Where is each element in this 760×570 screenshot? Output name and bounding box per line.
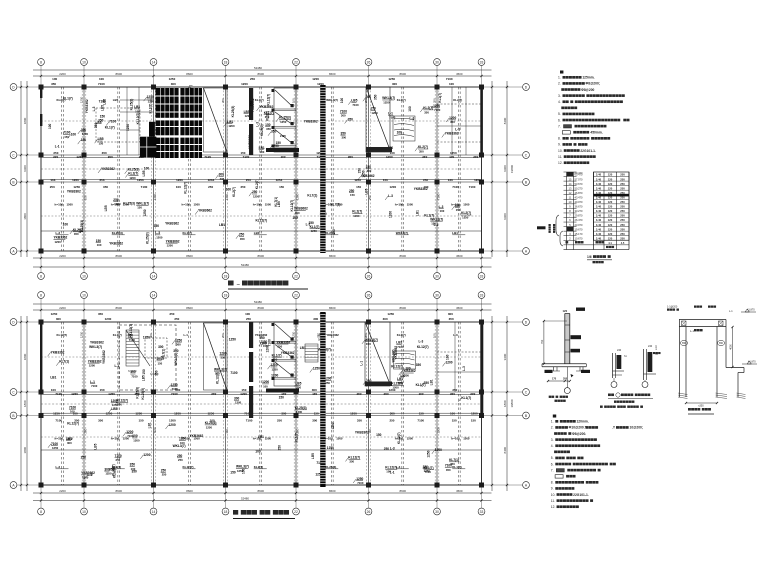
svg-text:8600: 8600 bbox=[258, 254, 265, 258]
plan2 mid-bay double dashed beam lines bbox=[61, 322, 63, 485]
plan1 mid-bay double dashed beam lines bbox=[61, 87, 63, 251]
svg-text:1250: 1250 bbox=[331, 422, 335, 429]
svg-text:41.870: 41.870 bbox=[747, 309, 755, 312]
plan2 left stairwell with flights bbox=[119, 325, 176, 390]
svg-text:YKB3362: YKB3362 bbox=[165, 221, 179, 225]
svg-text:YKB3362: YKB3362 bbox=[281, 351, 295, 355]
svg-text:7100: 7100 bbox=[153, 427, 157, 434]
svg-text:7100: 7100 bbox=[446, 77, 453, 81]
svg-text:100: 100 bbox=[97, 243, 102, 247]
plan1 columns bbox=[39, 85, 44, 90]
svg-text:120: 120 bbox=[608, 186, 613, 190]
svg-text:120: 120 bbox=[608, 173, 613, 177]
svg-text:4.5: 4.5 bbox=[621, 241, 625, 245]
svg-text:100: 100 bbox=[450, 412, 455, 416]
svg-text:52480: 52480 bbox=[254, 66, 262, 70]
svg-text:350: 350 bbox=[433, 98, 437, 103]
plan1 curved ramp detail bbox=[393, 116, 415, 141]
svg-text:LB5: LB5 bbox=[365, 188, 369, 194]
svg-text:19800: 19800 bbox=[510, 399, 514, 407]
svg-text:8600: 8600 bbox=[400, 254, 407, 258]
svg-text:22G101-1.: 22G101-1. bbox=[573, 493, 589, 497]
svg-text:350: 350 bbox=[424, 110, 429, 114]
svg-text:8600: 8600 bbox=[329, 489, 336, 493]
svg-text:300: 300 bbox=[341, 114, 346, 118]
svg-text:100: 100 bbox=[63, 222, 69, 226]
svg-text:250: 250 bbox=[81, 456, 87, 460]
svg-text:KL12(7): KL12(7) bbox=[397, 432, 401, 444]
svg-text:100: 100 bbox=[52, 77, 57, 81]
svg-text:1/6: 1/6 bbox=[587, 255, 592, 259]
svg-text:350: 350 bbox=[357, 419, 362, 423]
svg-text:4.: 4. bbox=[558, 100, 561, 104]
plan1 black mesh block (opening hatch) bbox=[156, 88, 203, 158]
svg-text:1500: 1500 bbox=[407, 203, 414, 207]
svg-text:120: 120 bbox=[608, 223, 613, 227]
svg-text:350: 350 bbox=[266, 127, 271, 131]
svg-text:1200: 1200 bbox=[114, 202, 121, 206]
svg-text:250: 250 bbox=[620, 218, 625, 222]
svg-text:100: 100 bbox=[255, 450, 261, 454]
svg-text:350: 350 bbox=[131, 470, 137, 474]
svg-text:350: 350 bbox=[240, 237, 245, 241]
svg-text:3.40: 3.40 bbox=[596, 236, 602, 240]
svg-text:22: 22 bbox=[294, 60, 298, 64]
floor level table bbox=[553, 171, 629, 263]
plan2 left dimension lines bbox=[20, 316, 22, 491]
svg-text:1.: 1. bbox=[551, 420, 554, 424]
svg-text:8600: 8600 bbox=[329, 72, 336, 76]
svg-text:3.: 3. bbox=[551, 438, 554, 442]
svg-text:WKL3(7): WKL3(7) bbox=[89, 345, 102, 349]
svg-text:46.870: 46.870 bbox=[575, 191, 583, 195]
svg-text:100: 100 bbox=[408, 106, 412, 112]
svg-text:1500: 1500 bbox=[407, 436, 414, 440]
svg-text:1250: 1250 bbox=[153, 193, 157, 200]
svg-text:L-3: L-3 bbox=[92, 106, 96, 111]
plan2 grid circles bottom bbox=[38, 508, 45, 515]
svg-text:26: 26 bbox=[367, 274, 371, 278]
svg-text:WKL3(7): WKL3(7) bbox=[173, 444, 186, 448]
svg-text:L-3: L-3 bbox=[418, 340, 423, 344]
svg-text:6.: 6. bbox=[558, 118, 561, 122]
detail 4: portal frame section bbox=[653, 306, 757, 415]
svg-text:1800: 1800 bbox=[23, 400, 27, 407]
svg-text:1-1@200: 1-1@200 bbox=[667, 306, 678, 309]
svg-text:3.40: 3.40 bbox=[596, 186, 602, 190]
svg-text:7100: 7100 bbox=[230, 371, 237, 375]
svg-text:350: 350 bbox=[51, 82, 56, 86]
svg-text:LB5: LB5 bbox=[93, 443, 97, 449]
svg-text:150: 150 bbox=[142, 369, 146, 375]
svg-text:120: 120 bbox=[563, 309, 568, 313]
svg-text:300: 300 bbox=[281, 412, 286, 416]
svg-text:h=100: h=100 bbox=[451, 436, 460, 440]
svg-text:14: 14 bbox=[152, 274, 156, 278]
svg-text:350: 350 bbox=[373, 94, 377, 100]
svg-text:120: 120 bbox=[608, 232, 613, 236]
svg-text:7100: 7100 bbox=[417, 419, 424, 423]
svg-text:L-3: L-3 bbox=[56, 231, 61, 235]
svg-text:LB5: LB5 bbox=[311, 453, 315, 459]
svg-text:3.40: 3.40 bbox=[596, 173, 602, 177]
svg-text:KL25(3): KL25(3) bbox=[112, 231, 123, 235]
svg-text:1200: 1200 bbox=[241, 82, 248, 86]
svg-text:KL2(7): KL2(7) bbox=[397, 98, 406, 102]
svg-text:1500: 1500 bbox=[265, 203, 272, 207]
svg-text:100: 100 bbox=[48, 123, 52, 129]
svg-text:100: 100 bbox=[51, 388, 56, 392]
svg-text:KL1(7): KL1(7) bbox=[63, 96, 73, 100]
svg-text:100: 100 bbox=[176, 185, 181, 189]
svg-text:1200: 1200 bbox=[105, 317, 112, 321]
svg-text:KL12(7): KL12(7) bbox=[184, 182, 188, 194]
plan2 left stair (3 flights) bbox=[274, 322, 296, 386]
svg-text:4050: 4050 bbox=[730, 344, 733, 350]
small vertical label left of table bbox=[549, 224, 551, 233]
svg-text:LB1: LB1 bbox=[430, 379, 434, 385]
svg-text:1200: 1200 bbox=[389, 211, 393, 218]
svg-text:250: 250 bbox=[620, 200, 625, 204]
svg-text:100: 100 bbox=[292, 216, 298, 220]
svg-text:1800: 1800 bbox=[23, 117, 27, 124]
svg-text:1250: 1250 bbox=[426, 450, 430, 457]
svg-text:3.40: 3.40 bbox=[596, 177, 602, 181]
svg-text:7100: 7100 bbox=[452, 185, 459, 189]
svg-text:300: 300 bbox=[176, 342, 181, 346]
svg-text:1250: 1250 bbox=[229, 337, 236, 341]
svg-text:120: 120 bbox=[608, 182, 613, 186]
svg-text:100: 100 bbox=[263, 384, 268, 388]
svg-text:1250: 1250 bbox=[51, 312, 58, 316]
svg-text:100: 100 bbox=[440, 209, 445, 213]
plan2 outer wall bbox=[41, 322, 482, 485]
plan1 grid circles bottom bbox=[38, 273, 45, 280]
svg-text:1250: 1250 bbox=[52, 446, 59, 450]
svg-text:8: 8 bbox=[40, 510, 42, 514]
svg-text:7100: 7100 bbox=[55, 419, 62, 423]
svg-text:100: 100 bbox=[448, 178, 453, 182]
plan1 interior column grid lines bbox=[83, 87, 85, 251]
svg-text:33: 33 bbox=[480, 510, 484, 514]
svg-text:350: 350 bbox=[271, 130, 277, 134]
plan1 title bbox=[228, 281, 234, 286]
svg-text:L-1: L-1 bbox=[690, 329, 694, 333]
svg-text:4500: 4500 bbox=[456, 72, 463, 76]
svg-text:300: 300 bbox=[158, 345, 164, 349]
svg-text:1200: 1200 bbox=[133, 438, 140, 442]
svg-text:350: 350 bbox=[419, 149, 424, 153]
svg-text:250: 250 bbox=[250, 77, 255, 81]
plan2 expansion joint hatch strip bbox=[320, 312, 325, 487]
top-right notes list bbox=[558, 71, 629, 166]
svg-text:YKB3662: YKB3662 bbox=[198, 209, 212, 213]
plan1 grid circles left bbox=[10, 84, 17, 91]
svg-text:YKB3662: YKB3662 bbox=[189, 434, 203, 438]
svg-text:52480: 52480 bbox=[241, 263, 249, 267]
plan2 interior column grid lines bbox=[83, 322, 85, 485]
svg-text:1200: 1200 bbox=[174, 412, 181, 416]
svg-text:1250: 1250 bbox=[280, 120, 287, 124]
svg-text:1200: 1200 bbox=[135, 412, 142, 416]
svg-text:250: 250 bbox=[389, 419, 394, 423]
svg-text:1200: 1200 bbox=[445, 360, 452, 364]
svg-text:650: 650 bbox=[719, 342, 724, 345]
svg-text:8600: 8600 bbox=[258, 489, 265, 493]
svg-text:LB1: LB1 bbox=[258, 435, 264, 439]
svg-text:350: 350 bbox=[98, 312, 103, 316]
svg-text:LB5: LB5 bbox=[104, 205, 108, 211]
svg-text:250: 250 bbox=[178, 458, 183, 462]
svg-text:~: ~ bbox=[237, 283, 241, 289]
svg-text:250: 250 bbox=[277, 344, 282, 348]
svg-text:100: 100 bbox=[226, 188, 232, 192]
svg-text:250: 250 bbox=[246, 178, 251, 182]
svg-text:26: 26 bbox=[367, 60, 371, 64]
svg-text:120: 120 bbox=[608, 200, 613, 204]
svg-text:3.40: 3.40 bbox=[596, 227, 602, 231]
svg-text:LB1: LB1 bbox=[254, 231, 260, 235]
svg-text:150: 150 bbox=[350, 193, 355, 197]
plan1 left dimension lines bbox=[20, 81, 22, 257]
svg-text:1200: 1200 bbox=[437, 427, 441, 434]
svg-text:L-1: L-1 bbox=[78, 228, 82, 233]
svg-text:300: 300 bbox=[56, 317, 61, 321]
svg-text:150: 150 bbox=[296, 428, 300, 433]
svg-text:h=100: h=100 bbox=[55, 203, 64, 207]
svg-text:1200: 1200 bbox=[72, 178, 79, 182]
svg-text:350: 350 bbox=[450, 120, 455, 124]
svg-text:250: 250 bbox=[116, 458, 121, 462]
svg-text:18: 18 bbox=[224, 510, 228, 514]
plan1 shear wall bar bbox=[249, 88, 253, 120]
plan1 secondary dashed horizontal beam lines bbox=[41, 120, 482, 122]
plan1 grid circles right bbox=[523, 84, 530, 91]
svg-text:100: 100 bbox=[400, 374, 406, 378]
svg-text:100: 100 bbox=[397, 131, 403, 135]
svg-text:1800: 1800 bbox=[23, 447, 27, 454]
svg-text:KL12(7): KL12(7) bbox=[67, 421, 79, 425]
svg-text:h=100: h=100 bbox=[55, 436, 64, 440]
svg-text:2200: 2200 bbox=[59, 306, 66, 310]
svg-text:350: 350 bbox=[225, 428, 229, 433]
svg-text:LB5: LB5 bbox=[277, 201, 281, 207]
plan1 right dimension lines bbox=[491, 81, 493, 257]
svg-text:1250: 1250 bbox=[387, 312, 394, 316]
svg-text:KL1(7): KL1(7) bbox=[255, 98, 264, 102]
svg-text:KL12(7): KL12(7) bbox=[391, 364, 403, 368]
svg-text:250: 250 bbox=[162, 473, 167, 477]
svg-text:1250: 1250 bbox=[80, 96, 84, 103]
svg-text:150: 150 bbox=[376, 433, 382, 437]
svg-text:7100: 7100 bbox=[352, 103, 359, 107]
svg-text:750: 750 bbox=[540, 339, 544, 344]
svg-text:L-1: L-1 bbox=[455, 127, 460, 131]
svg-text:KL25(3): KL25(3) bbox=[231, 106, 235, 118]
svg-text:KL25(3): KL25(3) bbox=[130, 99, 134, 111]
svg-text:10.: 10. bbox=[558, 149, 563, 153]
svg-text:33: 33 bbox=[480, 293, 484, 297]
svg-text:150: 150 bbox=[230, 470, 236, 474]
svg-text:250: 250 bbox=[240, 185, 245, 189]
svg-text:8.: 8. bbox=[558, 137, 561, 141]
svg-text:1500: 1500 bbox=[463, 436, 470, 440]
svg-text:L-1: L-1 bbox=[434, 223, 439, 227]
bottom floor plan (11th floor roof structural plan) bbox=[10, 292, 529, 519]
svg-text:5.: 5. bbox=[551, 456, 554, 460]
svg-text:100: 100 bbox=[71, 132, 77, 136]
svg-text:150: 150 bbox=[356, 185, 361, 189]
svg-text:10: 10 bbox=[82, 274, 86, 278]
svg-text:L-1: L-1 bbox=[729, 310, 733, 313]
svg-text:1250: 1250 bbox=[327, 446, 334, 450]
svg-text:1200: 1200 bbox=[271, 373, 278, 377]
svg-text:7100: 7100 bbox=[397, 345, 404, 349]
svg-text:KL2(7): KL2(7) bbox=[397, 333, 406, 337]
details 2/3 caption bbox=[600, 393, 653, 408]
svg-text:250: 250 bbox=[53, 151, 58, 155]
svg-text:150: 150 bbox=[149, 98, 153, 103]
svg-text:KL12(7): KL12(7) bbox=[57, 333, 68, 337]
svg-text:350: 350 bbox=[450, 462, 455, 466]
plan2 corridor double wall lines bbox=[41, 393, 482, 395]
svg-text:5.: 5. bbox=[558, 112, 561, 116]
svg-text:1800: 1800 bbox=[23, 213, 27, 220]
svg-text:L-3: L-3 bbox=[256, 122, 260, 127]
svg-text:43.470: 43.470 bbox=[575, 195, 583, 199]
svg-text:8600: 8600 bbox=[116, 306, 123, 310]
plan1 mesh block left extension bbox=[149, 122, 155, 137]
svg-text:350: 350 bbox=[169, 312, 174, 316]
svg-text:8600: 8600 bbox=[116, 489, 123, 493]
svg-text:350: 350 bbox=[102, 151, 107, 155]
svg-text:3.40: 3.40 bbox=[596, 218, 602, 222]
svg-text:150: 150 bbox=[139, 419, 144, 423]
svg-text:1200: 1200 bbox=[435, 448, 442, 452]
svg-text:450mm.: 450mm. bbox=[590, 131, 602, 135]
svg-text:100: 100 bbox=[84, 195, 88, 200]
svg-text:2200: 2200 bbox=[59, 489, 66, 493]
svg-text:100: 100 bbox=[292, 98, 296, 103]
svg-text:350: 350 bbox=[221, 98, 225, 103]
svg-text:30: 30 bbox=[435, 274, 439, 278]
svg-text:300: 300 bbox=[295, 211, 300, 215]
svg-text:1200: 1200 bbox=[389, 185, 396, 189]
svg-text:1250: 1250 bbox=[311, 229, 318, 233]
svg-text:250: 250 bbox=[221, 333, 225, 338]
svg-text:120: 120 bbox=[608, 214, 613, 218]
svg-text:1500: 1500 bbox=[265, 436, 272, 440]
svg-text:h=120: h=120 bbox=[128, 369, 137, 373]
svg-text:100: 100 bbox=[449, 82, 454, 86]
svg-text:300: 300 bbox=[149, 333, 153, 338]
svg-text:9400: 9400 bbox=[23, 165, 27, 172]
svg-text:23.070: 23.070 bbox=[575, 223, 583, 227]
plan2 right dimension lines bbox=[491, 316, 493, 491]
plan2 interior partitions upper band bbox=[454, 322, 456, 392]
plan2 bottom dimension lines bbox=[33, 492, 492, 494]
svg-text:1250: 1250 bbox=[462, 215, 469, 219]
svg-text:KL12(7): KL12(7) bbox=[255, 219, 267, 223]
svg-text:350: 350 bbox=[446, 468, 451, 472]
svg-text:150: 150 bbox=[368, 428, 372, 433]
svg-text:LB1: LB1 bbox=[50, 376, 56, 380]
svg-text:30: 30 bbox=[435, 60, 439, 64]
svg-text:100: 100 bbox=[144, 167, 150, 171]
svg-text:8600: 8600 bbox=[186, 72, 193, 76]
svg-text:h=100: h=100 bbox=[395, 203, 404, 207]
svg-text:YKB3362: YKB3362 bbox=[85, 99, 89, 113]
svg-text:18: 18 bbox=[224, 293, 228, 297]
svg-text:1250: 1250 bbox=[450, 151, 457, 155]
svg-text:150: 150 bbox=[279, 395, 285, 399]
svg-text:18: 18 bbox=[224, 274, 228, 278]
svg-text:52480: 52480 bbox=[254, 300, 262, 304]
detail 2: beam-column joint a bbox=[611, 349, 627, 388]
svg-text:14: 14 bbox=[152, 293, 156, 297]
svg-text:300: 300 bbox=[383, 317, 388, 321]
svg-text:250: 250 bbox=[174, 317, 179, 321]
svg-text:YKB3362: YKB3362 bbox=[67, 189, 81, 193]
svg-text:7100: 7100 bbox=[268, 339, 272, 346]
svg-text:YKB3362: YKB3362 bbox=[355, 430, 369, 434]
svg-text:8: 8 bbox=[40, 60, 42, 64]
svg-text:41.870: 41.870 bbox=[748, 361, 756, 364]
svg-text:8.: 8. bbox=[551, 481, 554, 485]
svg-text:100: 100 bbox=[445, 354, 449, 360]
svg-text:7100: 7100 bbox=[246, 419, 253, 423]
svg-text:KL25(3): KL25(3) bbox=[260, 124, 264, 136]
svg-text:7100: 7100 bbox=[469, 185, 476, 189]
svg-text:8600: 8600 bbox=[258, 306, 265, 310]
svg-text:300: 300 bbox=[67, 441, 72, 445]
svg-text:250: 250 bbox=[368, 195, 372, 200]
svg-text:350: 350 bbox=[103, 185, 108, 189]
svg-text:1250: 1250 bbox=[296, 193, 300, 200]
plan1 top dimension lines bbox=[33, 69, 492, 71]
svg-text:1200: 1200 bbox=[143, 453, 150, 457]
plan2 grid circles right bbox=[523, 319, 530, 326]
svg-text:350: 350 bbox=[109, 467, 115, 471]
svg-text:KL12(7): KL12(7) bbox=[417, 345, 429, 349]
svg-text:10@200;: 10@200; bbox=[630, 426, 643, 430]
svg-text:KL7(1): KL7(1) bbox=[162, 349, 166, 359]
svg-text:120: 120 bbox=[608, 236, 613, 240]
svg-text:250: 250 bbox=[620, 209, 625, 213]
plan2 mid stair diagonal bbox=[365, 322, 390, 386]
svg-text:250: 250 bbox=[620, 214, 625, 218]
svg-text:7100: 7100 bbox=[91, 384, 98, 388]
svg-text:1250: 1250 bbox=[207, 412, 214, 416]
svg-text:1200: 1200 bbox=[208, 178, 215, 182]
plan1 expansion joint hatch strip bbox=[320, 85, 325, 253]
svg-text:1250: 1250 bbox=[276, 178, 283, 182]
svg-text:125mm.: 125mm. bbox=[582, 76, 594, 80]
plan1 corridor double wall lines bbox=[41, 156, 482, 158]
svg-text:10: 10 bbox=[82, 293, 86, 297]
svg-text:250: 250 bbox=[384, 447, 390, 451]
svg-text:300: 300 bbox=[341, 136, 346, 140]
svg-text:8600: 8600 bbox=[186, 254, 193, 258]
svg-text:1250: 1250 bbox=[112, 403, 119, 407]
svg-text:9400: 9400 bbox=[503, 353, 507, 360]
svg-text:7100: 7100 bbox=[425, 470, 432, 474]
svg-text:100: 100 bbox=[70, 410, 75, 414]
svg-text:L-3: L-3 bbox=[390, 446, 395, 450]
svg-text:1200: 1200 bbox=[350, 412, 357, 416]
svg-text:240: 240 bbox=[617, 349, 622, 352]
svg-text:350: 350 bbox=[154, 224, 160, 228]
